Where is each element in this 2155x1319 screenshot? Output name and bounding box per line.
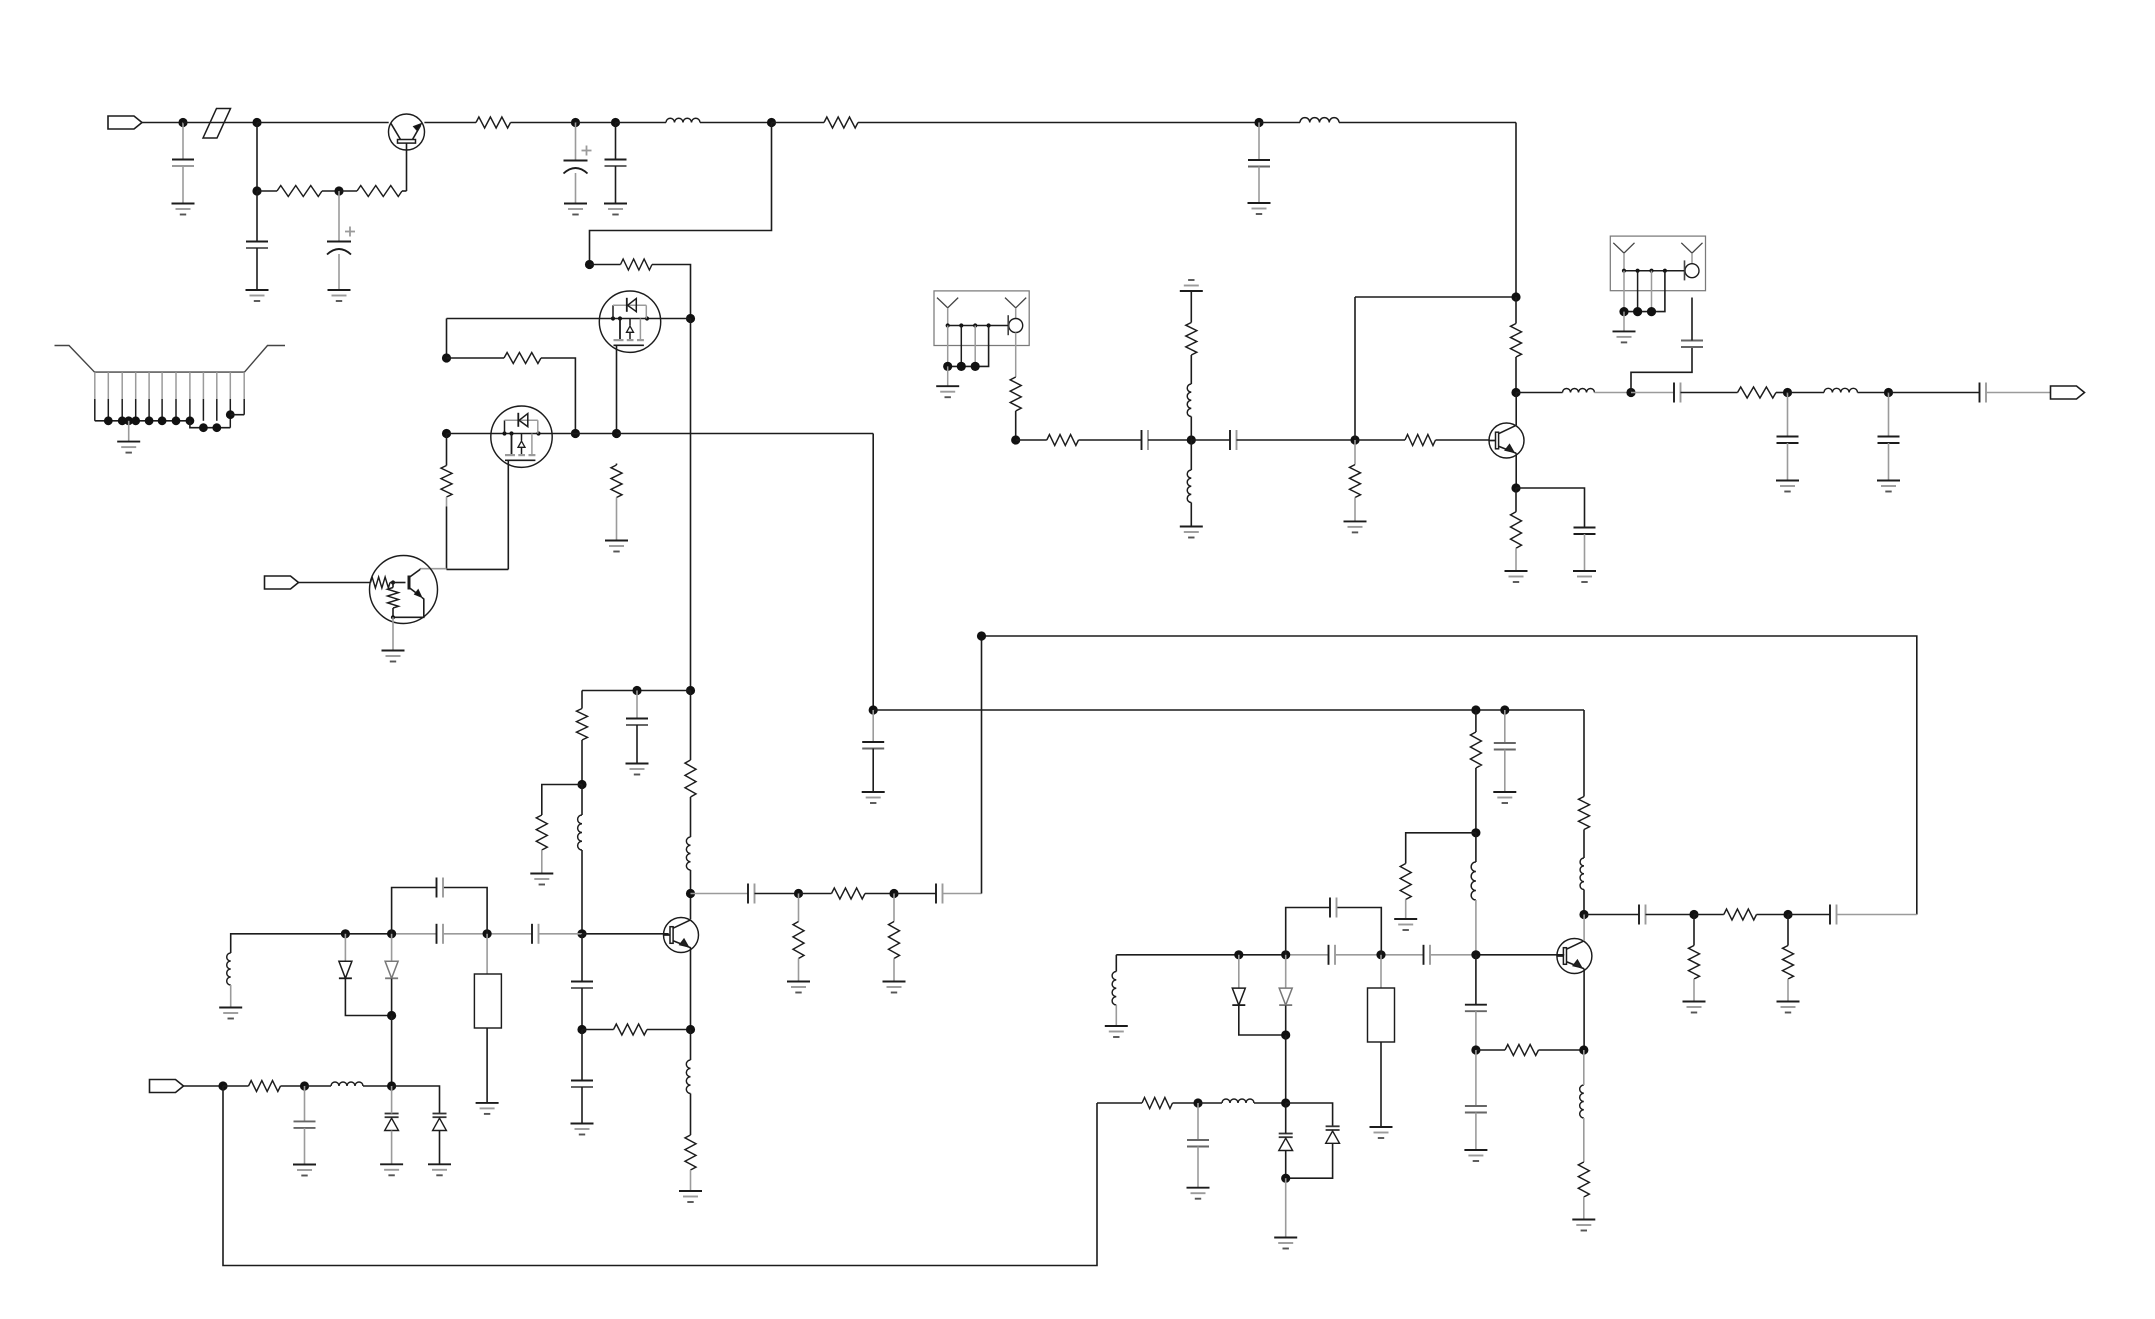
node cn9: [199, 423, 208, 432]
resistor R33: [1738, 387, 1776, 398]
wire: [391, 1086, 393, 1164]
wire: [391, 979, 393, 1016]
capacitor C16: [1681, 341, 1703, 348]
wire: [1475, 1050, 1477, 1106]
wire: [1355, 439, 1405, 441]
capacitor C14 (series): [1230, 430, 1237, 450]
box resistor X1: [474, 974, 501, 1028]
box resistor X2: [1368, 988, 1395, 1042]
resistor R22: [1783, 946, 1794, 979]
wire: [446, 434, 448, 570]
wire: [581, 691, 583, 709]
wire: [582, 690, 691, 692]
wire: [1516, 488, 1585, 528]
node F7: [1281, 1030, 1290, 1039]
inductor L15: [686, 1060, 690, 1094]
wire: [1115, 955, 1117, 972]
wire: [552, 433, 616, 435]
node E7: [1783, 388, 1792, 397]
ground: [564, 204, 587, 215]
ground: [1274, 1238, 1297, 1249]
fuse F1: [203, 109, 231, 139]
feedback loop: [392, 888, 488, 934]
ground: [1370, 1127, 1393, 1138]
node A8: [1254, 118, 1263, 127]
transistor Q3: [1489, 423, 1524, 458]
inductor L12: [1187, 470, 1191, 503]
wire: [1595, 392, 1632, 394]
wire: [1197, 1103, 1199, 1140]
wire: [447, 357, 505, 359]
wire: [581, 988, 583, 1030]
inductor L13: [1563, 389, 1595, 393]
node F9: [1471, 1045, 1480, 1054]
inductor L8: [1580, 1085, 1584, 1118]
node F8: [1281, 1098, 1290, 1107]
wire: [1515, 453, 1517, 488]
wire: [1354, 498, 1356, 522]
wire: [1285, 1103, 1287, 1178]
ground: [1777, 1002, 1800, 1013]
capacitor C8 (series): [437, 924, 444, 944]
wire: [402, 190, 407, 192]
diode D1: [339, 961, 352, 978]
ground: [382, 651, 405, 662]
wire: [1476, 954, 1564, 956]
diode D4: [1279, 988, 1292, 1005]
wire: [1691, 298, 1693, 341]
wire: [872, 749, 874, 793]
capacitor C29 (series): [1424, 945, 1431, 965]
wire: [647, 1029, 691, 1031]
resistor R14: [832, 888, 865, 899]
wire: [1097, 1102, 1142, 1104]
node F2: [1689, 910, 1698, 919]
ground: [679, 1191, 702, 1202]
capacitor C30 (series): [1330, 898, 1337, 918]
mosfet M1: [599, 291, 660, 352]
node C1: [686, 686, 695, 695]
wire: [1888, 443, 1890, 481]
resistor R6: [504, 353, 541, 364]
resistor R4: [824, 117, 858, 128]
wire: [363, 1085, 392, 1087]
wire: [184, 1085, 224, 1087]
capacitor C18: [1777, 437, 1799, 444]
wire: [1436, 439, 1489, 441]
ground (inverted): [1180, 280, 1203, 291]
wire: [1583, 969, 1585, 1050]
node A2: [252, 118, 261, 127]
ground: [1505, 571, 1528, 582]
capacitor C13 (series): [1142, 430, 1149, 450]
wire: [690, 1170, 692, 1191]
wire: [392, 933, 582, 935]
wire: [1380, 1042, 1382, 1127]
wire: [230, 985, 232, 1008]
resistor R26: [249, 1081, 281, 1092]
wire: [1285, 1006, 1287, 1036]
wire: [1239, 1006, 1286, 1036]
resistor R5: [621, 259, 653, 270]
capacitor C25: [1494, 743, 1516, 750]
inductor L14: [1824, 388, 1858, 392]
wire: [865, 893, 894, 895]
inductor L7: [1112, 972, 1116, 1006]
resistor R15: [793, 922, 804, 959]
node D6: [686, 889, 695, 898]
node D8: [889, 889, 898, 898]
wire: [1354, 440, 1356, 465]
node B2: [686, 314, 695, 323]
ground: [530, 874, 553, 885]
node E6: [1626, 388, 1635, 397]
wire: [1190, 355, 1192, 384]
wire: [652, 265, 691, 319]
wire: [1285, 1035, 1287, 1103]
connector CN1 body: [55, 346, 286, 373]
inductor L2: [1300, 118, 1339, 123]
filter module FL2: [1610, 236, 1705, 331]
varactor V4: [1326, 1126, 1340, 1143]
wire: [447, 433, 491, 435]
input connector J3: [150, 1080, 184, 1093]
wire: [982, 636, 1917, 915]
wire: [582, 1029, 614, 1031]
inductor L10: [331, 1082, 363, 1086]
wire: [183, 122, 257, 124]
wire: [1516, 392, 1563, 394]
wire: [1355, 296, 1516, 298]
node F5b: [1471, 950, 1480, 959]
filter module FL1: [934, 291, 1029, 386]
ground: [571, 1124, 594, 1135]
node A4: [334, 186, 343, 195]
wire: [390, 582, 406, 584]
node A3: [252, 186, 261, 195]
resistor R27: [1010, 377, 1021, 411]
resistor R3: [476, 117, 511, 128]
wire: [616, 122, 667, 124]
inductor L16: [686, 837, 690, 870]
ground: [1105, 1026, 1128, 1037]
wire: [447, 318, 600, 320]
ground: [380, 1164, 403, 1175]
connector CN1 pins: [95, 372, 244, 428]
wire: [256, 248, 258, 290]
wire: [581, 740, 583, 785]
node B3: [612, 429, 621, 438]
ground: [328, 290, 351, 301]
inductor L5: [1471, 862, 1476, 900]
wire: [894, 893, 936, 895]
feedback loop 2: [1286, 908, 1382, 955]
wire: [420, 568, 447, 570]
wire: [690, 319, 692, 691]
node C5: [577, 1025, 586, 1034]
node E0: [1011, 435, 1020, 444]
wire: [873, 709, 1584, 711]
wire: [1583, 710, 1585, 797]
bus junctions: [104, 416, 194, 425]
ground: [476, 1103, 499, 1114]
inductor L9: [1222, 1099, 1254, 1103]
wire: [1583, 915, 1585, 941]
wire: [636, 691, 638, 719]
wire: [582, 933, 669, 935]
wire: [636, 725, 638, 764]
capacitor C28 (series): [1329, 945, 1336, 965]
node B5: [442, 353, 451, 362]
node A10: [300, 1081, 309, 1090]
ground: [1344, 521, 1367, 532]
wire: [230, 414, 244, 416]
wire: [617, 433, 874, 435]
wire: [338, 254, 340, 290]
wire: [893, 959, 895, 982]
wire: [182, 123, 184, 160]
capacitor C7: [626, 719, 648, 726]
resistor R13: [614, 1024, 647, 1035]
node A5: [571, 118, 580, 127]
wire: [392, 617, 394, 650]
wire: [1198, 1102, 1222, 1104]
capacitor C23 (series): [936, 884, 943, 904]
resistor R25: [1142, 1098, 1173, 1109]
node cn11: [226, 410, 235, 419]
varactor V1: [385, 1114, 399, 1131]
wire: [406, 143, 408, 191]
wire: [439, 1131, 441, 1165]
wire: [1286, 954, 1476, 956]
resistor R28: [1405, 435, 1436, 446]
wire: [1837, 914, 1917, 916]
wire: [257, 122, 389, 124]
node E9: [1471, 705, 1480, 714]
node D5: [387, 1011, 396, 1020]
gate wire M2: [507, 460, 509, 569]
wire: [1631, 348, 1692, 393]
wire: [872, 710, 874, 742]
wire: [1476, 1049, 1505, 1051]
node F12: [1281, 1174, 1290, 1183]
wire: [190, 421, 230, 428]
wire: [281, 1085, 305, 1087]
wire: [1504, 750, 1506, 793]
node F5: [1500, 705, 1509, 714]
wire: [1858, 392, 1889, 394]
ground: [862, 792, 885, 803]
wire: [799, 893, 832, 895]
wire: [339, 190, 357, 192]
wire: [304, 1128, 306, 1165]
wire: [511, 122, 576, 124]
resistor R29: [1186, 323, 1197, 355]
wire: [1285, 955, 1287, 988]
wire: [1406, 833, 1476, 864]
ground: [605, 541, 628, 552]
wire: [1888, 393, 1890, 437]
ground: [1187, 1188, 1210, 1199]
wire: [1681, 392, 1738, 394]
ground: [1180, 527, 1203, 538]
wire: [256, 123, 258, 192]
wire: [1693, 915, 1695, 946]
capacitor C15: [1574, 528, 1596, 535]
wire: [1583, 830, 1585, 859]
wire: [142, 122, 183, 124]
capacitor C6: [1248, 160, 1270, 167]
wire: [1190, 440, 1192, 527]
input connector J2: [265, 576, 299, 589]
gate wire M1: [616, 345, 618, 433]
output connector J4: [2051, 386, 2085, 399]
wire: [1515, 297, 1517, 393]
node E10: [1471, 828, 1480, 837]
inductor L4: [227, 953, 231, 985]
wire: [1475, 833, 1477, 955]
resistor R12: [536, 815, 547, 850]
varactor V3: [1279, 1134, 1293, 1151]
resistor R31: [1511, 324, 1522, 358]
capacitor C10 (series): [437, 878, 444, 898]
diode D2: [385, 961, 398, 978]
wire: [1190, 291, 1192, 323]
node C6: [686, 1025, 695, 1034]
resistor R17: [1470, 732, 1481, 768]
node D9: [977, 631, 986, 640]
resistor R9 (internal): [388, 588, 399, 609]
capacitor C31: [1465, 1005, 1487, 1012]
wire: [616, 464, 618, 541]
inductor L3: [578, 815, 582, 850]
node E2: [1350, 435, 1359, 444]
wire: [1475, 768, 1477, 833]
ground: [1877, 481, 1900, 492]
resistor R24: [1578, 1162, 1589, 1197]
wire: [392, 1086, 440, 1114]
wire: [95, 420, 190, 422]
wire: [661, 318, 691, 320]
resistor R20: [1724, 909, 1757, 920]
wire: [798, 894, 800, 922]
wire: [1787, 443, 1789, 481]
wire: [1339, 122, 1516, 124]
transistor Q2: [370, 556, 438, 624]
wire: [581, 934, 583, 982]
wire: [1583, 1050, 1585, 1162]
ground: [883, 982, 906, 993]
wire: [344, 934, 346, 962]
node A7: [767, 118, 776, 127]
wire: [590, 123, 772, 265]
wire: [128, 421, 130, 442]
wire: [1787, 979, 1789, 1002]
ground: [117, 442, 140, 453]
wire: [700, 122, 772, 124]
node B7: [442, 429, 451, 438]
wire: [447, 568, 509, 570]
ground: [1573, 571, 1596, 582]
node F4a: [1234, 950, 1243, 959]
mosfet M2: [491, 406, 552, 467]
wire: [943, 893, 982, 895]
wire: [872, 434, 874, 711]
node C2: [632, 686, 641, 695]
wire: [1475, 1113, 1477, 1151]
node B6: [571, 429, 580, 438]
inductor L1: [666, 118, 700, 122]
wire: [1475, 1011, 1477, 1050]
capacitor C17 (series): [1674, 383, 1681, 403]
wire: [1515, 488, 1517, 571]
wire: [1380, 955, 1382, 988]
node E4b: [387, 1081, 396, 1090]
capacitor C22 (series): [748, 884, 755, 904]
wire: [1197, 1147, 1199, 1188]
wire: [542, 785, 582, 816]
resistor R11: [577, 709, 588, 741]
resistor R18: [1400, 864, 1411, 900]
wire: [1776, 392, 1788, 394]
resistor R8 (internal): [371, 577, 391, 588]
wire: [1475, 955, 1477, 1005]
wire: [1237, 439, 1356, 441]
wire: [1259, 122, 1300, 124]
resistor R32: [1511, 512, 1522, 548]
wire: [1116, 954, 1285, 956]
wire: [1515, 123, 1517, 298]
ground: [1776, 481, 1799, 492]
wire: [690, 870, 692, 894]
capacitor C1: [172, 160, 194, 167]
wire: [1286, 1103, 1333, 1126]
wire: [1405, 900, 1407, 920]
capacitor C33: [1187, 1140, 1209, 1147]
wire: [576, 122, 616, 124]
wire: [1693, 979, 1695, 1002]
node cn10: [212, 423, 221, 432]
node B1: [585, 260, 594, 269]
wire: [1787, 915, 1789, 946]
wire: [772, 122, 825, 124]
node F10: [1579, 1045, 1588, 1054]
wire: [424, 122, 476, 124]
wire: [1191, 439, 1230, 441]
node A6: [611, 118, 620, 127]
wire: [690, 1030, 692, 1136]
varactor V2: [433, 1114, 447, 1131]
wire: [1584, 534, 1586, 571]
wire: [182, 166, 184, 204]
wire: [1354, 297, 1356, 440]
transistor Q1: [389, 114, 425, 150]
resistor R19: [1579, 797, 1590, 830]
wire: [690, 894, 692, 920]
node E1: [1187, 435, 1196, 444]
wire: [1583, 1197, 1585, 1220]
ground: [172, 204, 195, 215]
capacitor C3 +: [327, 227, 355, 255]
wire: [1258, 123, 1260, 160]
resistor R16: [889, 922, 900, 959]
wire: [575, 123, 577, 161]
capacitor C19: [1878, 437, 1900, 444]
node E4: [1511, 388, 1520, 397]
resistor R35: [685, 760, 696, 797]
inductor L6: [1580, 858, 1584, 890]
node F3: [1783, 910, 1792, 919]
